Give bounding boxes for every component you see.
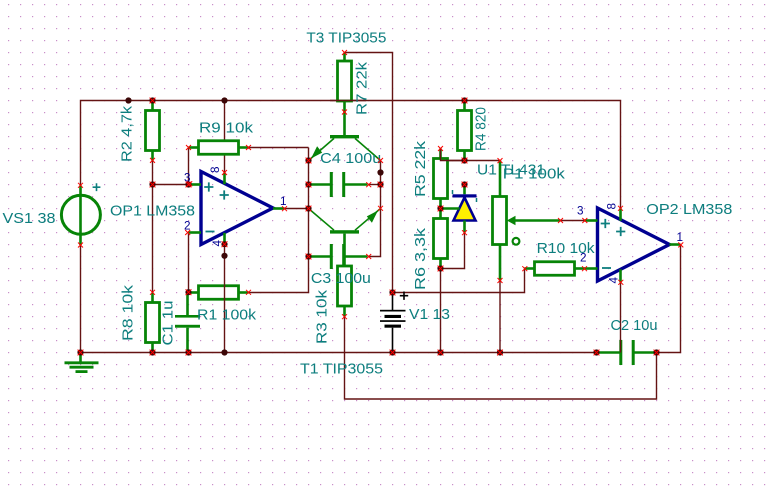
junction dots node bus x308 — [305, 157, 311, 259]
op-amp OP1 pin8 stub — [223, 173, 226, 185]
shunt regulator U1 TL431 — [441, 185, 477, 233]
label VS1 plus sign — [93, 183, 101, 191]
resistor R10 — [525, 262, 585, 276]
wire C4 right to collector bus — [369, 184, 381, 186]
op-amp OP1 output stub — [273, 207, 285, 210]
transistor T3 — [309, 112, 381, 161]
svg-text:C2 10u: C2 10u — [611, 318, 658, 334]
wire OP2 pin4 to ground rail — [620, 282, 622, 352]
wire R9 left to pin3 node — [188, 148, 190, 185]
svg-text:T1 TIP3055: T1 TIP3055 — [300, 362, 383, 378]
op-amp OP1 pin3 stub — [189, 183, 202, 186]
svg-text:R10 10k: R10 10k — [537, 241, 596, 257]
op-amp OP2 pin4 stub — [619, 269, 622, 282]
transistor T1 — [309, 209, 381, 267]
svg-text:1: 1 — [677, 231, 684, 244]
battery plus sign — [400, 292, 408, 300]
wire P1 bottom to ground rail — [499, 281, 501, 353]
svg-text:C1 1u: C1 1u — [161, 301, 177, 346]
resistor R1 — [189, 286, 249, 300]
resistor R9 — [189, 141, 249, 155]
resistor R4 — [458, 101, 472, 161]
wire OP1 pin3 branch — [153, 184, 189, 186]
capacitor C2 — [597, 340, 657, 365]
svg-text:R4 820: R4 820 — [474, 107, 490, 151]
wire bottom ground rail — [81, 352, 597, 354]
junction dots top rail — [125, 97, 467, 103]
wire OP1 pin8 to top rail — [224, 101, 226, 173]
svg-text:R6 3,3k: R6 3,3k — [413, 227, 429, 290]
svg-text:VS1 38: VS1 38 — [3, 211, 56, 227]
svg-text:T3 TIP3055: T3 TIP3055 — [306, 31, 386, 47]
svg-text:8: 8 — [606, 203, 619, 210]
ground symbol — [65, 353, 99, 372]
battery V1 — [380, 293, 406, 353]
svg-text:2: 2 — [580, 252, 587, 265]
svg-text:V1 13: V1 13 — [409, 307, 450, 323]
wire R4 bottom node to P1 top — [465, 160, 501, 162]
wire OP1 pin4 to ground rail — [224, 245, 226, 353]
wire OP2 pin4 overdraw at C2 plate — [620, 340, 622, 353]
resistor R2 — [146, 101, 160, 161]
svg-text:R7 22k: R7 22k — [355, 61, 371, 115]
wire pot wiper to OP2 pin3 — [561, 220, 585, 222]
op-amp OP2 output stub — [670, 243, 681, 246]
junction dots pin3 row — [149, 181, 191, 187]
wire top rail overdraw at R7 — [330, 100, 366, 102]
resistor R8 — [146, 293, 160, 353]
svg-text:R8 10k: R8 10k — [121, 284, 137, 341]
wire OP2 output down to C2 right node — [657, 245, 681, 353]
capacitor C3 — [308, 244, 368, 269]
junction dots R5 R6 divider — [437, 205, 443, 271]
pin connection x marks — [78, 50, 683, 319]
capacitor C4 — [308, 172, 368, 197]
junction dots collector bus x380 — [377, 169, 383, 187]
svg-text:OP1 LM358: OP1 LM358 — [110, 204, 195, 220]
junction dots TL431 cathode column — [461, 157, 467, 187]
transistor T3 emitter arrow — [311, 146, 322, 158]
svg-text:R3 10k: R3 10k — [315, 289, 331, 344]
wire T3 collector bus down to C3 right — [369, 161, 381, 257]
svg-text:OP2 LM358: OP2 LM358 — [646, 202, 732, 218]
potentiometer P1 — [493, 161, 561, 281]
wire VS1 minus down to ground rail — [80, 245, 82, 353]
junction dot battery plus — [389, 289, 395, 295]
wire OP1 output to node bus — [285, 208, 309, 210]
op-amp OP1 pin4 stub — [223, 233, 226, 245]
op-amp OP1 — [201, 172, 273, 245]
wire feedback C2 node to R3 bottom — [345, 317, 657, 400]
junction dots OP1 pin4 column — [221, 241, 227, 259]
svg-text:R5 22k: R5 22k — [413, 140, 429, 197]
op-amp OP2 pin3 stub — [585, 219, 598, 222]
wire R7 top to battery plus column — [345, 53, 393, 293]
wire TL431 anode to R6 bottom — [441, 233, 465, 269]
svg-text:3: 3 — [577, 204, 584, 217]
capacitor C1 — [175, 293, 200, 353]
resistor R3 — [338, 266, 352, 317]
resistor R7 — [338, 53, 352, 113]
junction dots ground rail — [77, 349, 659, 355]
transistor T1 emitter arrow — [367, 211, 378, 223]
wire top supply rail — [81, 101, 621, 209]
wire node bus x308 down to R1 right — [249, 148, 309, 293]
svg-text:R9 10k: R9 10k — [199, 121, 254, 137]
op-amp OP2 — [598, 208, 670, 281]
wire OP1 pin4 overdraw across R1 — [224, 285, 226, 301]
wire battery plus to R10 left — [393, 269, 525, 293]
potentiometer P1 wiper arrow — [507, 216, 516, 226]
op-amp OP2 pin8 stub — [619, 208, 622, 220]
svg-text:C3 100u: C3 100u — [311, 271, 371, 287]
junction dot R1 left node — [185, 289, 191, 295]
wire R5 top node overdraw — [441, 149, 465, 161]
resistor R6 — [434, 209, 448, 269]
wire OP1 pin2 down to R1/C1 node — [188, 233, 190, 293]
wire R5 top to R4 bottom node — [441, 149, 465, 161]
svg-text:P1 100k: P1 100k — [503, 167, 566, 183]
svg-text:8: 8 — [209, 166, 222, 173]
op-amp OP2 pin2 stub — [585, 267, 598, 270]
svg-text:R2 4,7k: R2 4,7k — [120, 105, 136, 162]
wire R2 bottom bus to R8 top — [152, 160, 154, 292]
svg-text:R1 100k: R1 100k — [197, 308, 257, 324]
op-amp OP1 pin2 stub — [188, 231, 201, 234]
svg-text:1: 1 — [280, 195, 287, 208]
wire R6 bottom to ground rail — [440, 269, 442, 353]
resistor R5 — [434, 149, 448, 209]
wire R9 right to node bus — [249, 147, 309, 149]
voltage source VS1 — [61, 185, 100, 245]
svg-text:C4 100u: C4 100u — [320, 151, 381, 167]
